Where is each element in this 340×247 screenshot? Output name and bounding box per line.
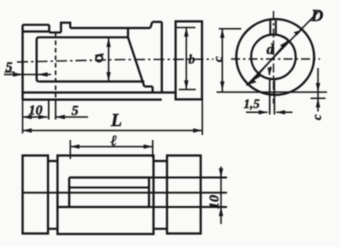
5 bottom arrow [56, 115, 65, 119]
c left arrows [220, 29, 224, 38]
fillet left vertical [37, 37, 40, 81]
long ext line y92 [217, 91, 328, 93]
right neck [154, 161, 168, 229]
hidden dash line x55.6 [55, 33, 57, 99]
right c ext y98.3 [311, 97, 326, 99]
ext x202.3 [201, 100, 203, 135]
10 right arrows [219, 168, 223, 177]
circle vertical center dash [273, 11, 275, 104]
label a (bore diameter, rotated) [95, 54, 103, 62]
c left ext top [219, 28, 242, 30]
svg-text:L: L [110, 110, 122, 130]
tab1 [61, 23, 70, 33]
cap inner bottom line [179, 89, 196, 91]
d extra arrow [268, 67, 272, 76]
right c shaft [317, 68, 319, 112]
ext x22.6 below part [22, 100, 24, 134]
svg-text:1,5: 1,5 [244, 96, 261, 111]
inner mid line 187.5 [69, 187, 149, 189]
left edge [22, 25, 24, 100]
ext x48.7 [48, 100, 50, 120]
cap inner top line [176, 27, 196, 29]
D arrows [294, 30, 303, 36]
dim line l [70, 146, 152, 148]
slot top lines [270, 20, 276, 35]
ext x55.6 below [55, 99, 57, 120]
side view part outline [23, 21, 202, 100]
slot bottom line [49, 31, 61, 33]
dim c left shaft [221, 29, 223, 92]
middle section [58, 156, 154, 235]
inner rect [58, 178, 150, 208]
svg-text:ℓ: ℓ [111, 134, 117, 150]
circle horizontal center dash [231, 58, 320, 60]
left block [23, 156, 48, 234]
underline of label 5 [5, 71, 15, 73]
bottom view [23, 156, 201, 235]
dim line 10 [23, 116, 48, 118]
svg-text:10: 10 [29, 103, 43, 118]
flange top [23, 24, 50, 26]
dim 10 right shaft [220, 167, 222, 225]
svg-text:5: 5 [6, 61, 13, 76]
ext l left [69, 140, 71, 159]
short bottom line y86.5 [144, 85, 152, 87]
dim 5 top-left line [4, 74, 51, 76]
svg-text:d: d [267, 42, 275, 58]
svg-text:5: 5 [72, 104, 79, 119]
outer bottom line [23, 98, 162, 100]
d arrows [253, 73, 261, 81]
body right edge [161, 22, 163, 93]
side view center line [17, 59, 214, 62]
L arrows [23, 128, 32, 132]
flange step vertical [48, 25, 50, 33]
step x152.6 [152, 87, 154, 93]
through line y192.7 [23, 192, 227, 194]
svg-text:b: b [189, 52, 196, 67]
D diagonal [247, 11, 320, 86]
b arrows [184, 28, 188, 37]
right c arrows [316, 83, 320, 92]
inner bottom line [23, 91, 176, 93]
right cap rect [176, 21, 202, 99]
tab2 step [150, 22, 152, 28]
l arrows [70, 144, 79, 148]
inner circle d [251, 35, 296, 80]
ext right y207 [149, 206, 227, 208]
dim 1,5 lines [246, 111, 293, 113]
svg-text:10: 10 [208, 195, 223, 209]
dim b shaft [185, 28, 187, 90]
bore bottom line [39, 80, 144, 82]
5 top-left arrows [13, 72, 23, 76]
main top line [70, 27, 150, 29]
dim a shaft [108, 38, 110, 81]
slot ext bottom [270, 79, 275, 115]
ext right y177.5 [149, 177, 227, 179]
arrowheads [13, 28, 320, 217]
d diagonal [253, 41, 289, 81]
flange band inner line [23, 30, 50, 32]
svg-text:c: c [309, 114, 324, 120]
1,5 arrows [259, 110, 268, 114]
dim line L [23, 130, 203, 132]
outer circle D [236, 19, 314, 95]
right block [167, 156, 201, 234]
left neck [48, 161, 58, 229]
svg-text:D: D [310, 6, 323, 25]
a arrows [106, 38, 110, 47]
10 arrows [23, 115, 32, 119]
diagonal [128, 37, 144, 86]
dim line 5 bottom [56, 116, 88, 118]
ext l right [152, 140, 154, 158]
d extra arrow shaft [269, 67, 270, 75]
tab2 top [152, 21, 162, 23]
band inner line [39, 36, 128, 38]
svg-text:c: c [210, 56, 225, 62]
step vertical x128 [127, 28, 129, 37]
